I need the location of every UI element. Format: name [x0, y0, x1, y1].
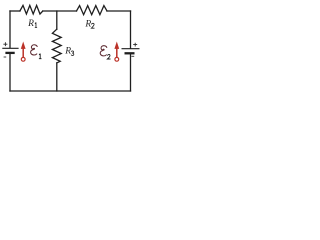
wire right lower [130, 55, 132, 92]
label R3 subscript 3 [71, 51, 74, 56]
background [0, 0, 142, 99]
label R2 subscript 2 [91, 23, 94, 28]
label EMF2 script E [100, 46, 107, 56]
wire bottom [10, 90, 131, 92]
label EMF1 subscript 1 [39, 54, 42, 59]
battery E2 plates [122, 49, 140, 54]
wire left upper [9, 11, 11, 48]
wire middle lower [56, 63, 58, 91]
wire top-middle [43, 10, 77, 12]
resistor R3 [52, 29, 61, 63]
svg-text:R: R [27, 19, 34, 29]
battery E1 minus sign [4, 56, 7, 58]
wire right upper [130, 11, 132, 48]
svg-text:R: R [84, 19, 91, 29]
battery E1 plus sign [3, 42, 7, 46]
label R1 subscript 1 [35, 22, 37, 27]
battery E1 plates [2, 48, 18, 53]
label EMF2 subscript 2 [107, 55, 110, 59]
battery E2 plus sign [133, 43, 137, 47]
wire left lower [9, 54, 11, 91]
svg-text:R: R [64, 47, 71, 57]
resistor R2 [77, 6, 108, 15]
label EMF1 script E [31, 45, 38, 55]
emf arrow left [21, 42, 26, 62]
resistor R1 [20, 5, 43, 14]
wire top-right [107, 10, 131, 12]
wire top-left [10, 10, 20, 12]
wire middle upper [56, 11, 58, 29]
battery E2 minus sign [131, 55, 134, 57]
emf arrow right [114, 42, 119, 62]
